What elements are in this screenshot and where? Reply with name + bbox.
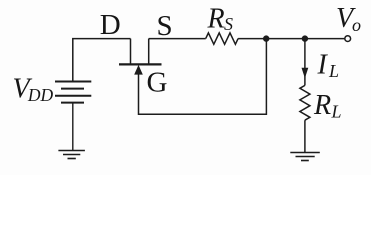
wire: load branch down from node B xyxy=(304,39,306,86)
ground (left) xyxy=(58,151,85,159)
svg-text:S: S xyxy=(224,14,233,34)
wire: RL to ground xyxy=(304,120,306,152)
node B junction dot xyxy=(302,35,308,41)
svg-text:DD: DD xyxy=(27,85,54,105)
resistor RS xyxy=(206,33,238,44)
svg-text:o: o xyxy=(352,15,361,35)
wire: battery to ground xyxy=(72,104,74,151)
resistor RL xyxy=(300,85,310,120)
svg-text:S: S xyxy=(157,10,173,42)
wire: drain leg down to channel xyxy=(130,39,132,64)
svg-text:G: G xyxy=(147,67,168,99)
wire: RS to output terminal xyxy=(238,38,344,40)
battery VDD xyxy=(55,82,91,103)
wire: source leg up from channel xyxy=(148,39,150,64)
svg-text:D: D xyxy=(100,9,121,41)
ground (right) xyxy=(290,153,320,161)
transistor Q1 gate arrow xyxy=(134,65,143,75)
svg-text:L: L xyxy=(331,102,342,122)
wire: source to RS xyxy=(149,38,206,40)
svg-text:I: I xyxy=(317,49,329,80)
transistor Q1 channel bar xyxy=(119,63,162,65)
wire: VDD top wire up to drain leg xyxy=(73,39,131,82)
wire: gate stem and feedback run to node A xyxy=(139,39,267,115)
current arrow IL xyxy=(302,68,309,79)
svg-text:R: R xyxy=(313,90,331,121)
node A junction dot xyxy=(263,35,269,41)
svg-text:R: R xyxy=(207,3,225,34)
output terminal Vo xyxy=(345,36,351,42)
svg-text:L: L xyxy=(328,61,339,81)
